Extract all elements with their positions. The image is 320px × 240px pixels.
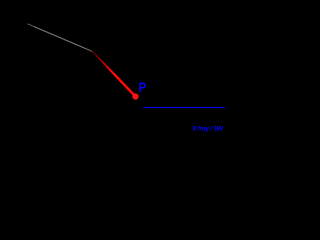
svg-text:P: P [139, 80, 147, 95]
svg-text:X fmy / 3W: X fmy / 3W [192, 125, 224, 132]
trajectory trail of point P (grey segment then red segment) [28, 24, 136, 97]
marker ring at point P [133, 94, 137, 98]
ground line (blue) [143, 107, 225, 109]
